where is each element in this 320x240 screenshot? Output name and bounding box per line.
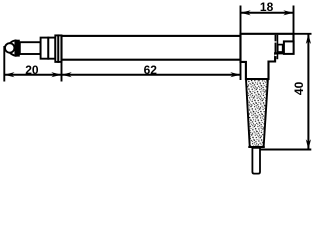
stylus horn (flared tip body) xyxy=(9,40,15,55)
connector square xyxy=(284,41,294,54)
stylus shaft xyxy=(20,42,41,54)
arrow right of dim 62 xyxy=(230,72,240,77)
stippled taper cone xyxy=(246,80,268,146)
flange ring B xyxy=(58,35,61,62)
arrow right of dim 20 xyxy=(51,72,61,77)
extension line left of dim 20 (at stylus tip) xyxy=(3,46,5,82)
extension line right of dim 18 (head right face extended) xyxy=(293,6,295,34)
stylus ball nose xyxy=(5,43,15,53)
cone bottom edge xyxy=(248,146,264,148)
arrow right of dim 18 xyxy=(283,10,293,15)
svg-text:40: 40 xyxy=(292,81,306,95)
cone left side xyxy=(246,80,250,147)
junction line body/head (also extension for 62 and 18) xyxy=(240,6,242,81)
flange ring A xyxy=(55,35,58,62)
dimension line 40 xyxy=(307,34,309,150)
collar ring 1 xyxy=(41,38,49,59)
svg-text:20: 20 xyxy=(25,63,39,77)
collar ring 2 xyxy=(48,38,55,59)
main body cylinder xyxy=(62,36,241,60)
extension line shared by dim 20 / dim 62 (body left face) xyxy=(61,60,63,82)
arrow left of dim 18 xyxy=(241,10,251,15)
dimension line 62 xyxy=(62,74,241,76)
clamp slit lines on head xyxy=(274,35,276,59)
svg-text:18: 18 xyxy=(260,0,274,14)
extension line top of dim 40 (head top extended) xyxy=(294,33,312,35)
arrow left of dim 20 xyxy=(4,72,14,77)
arrow bottom of dim 40 xyxy=(306,139,311,149)
extension line bottom of dim 40 xyxy=(260,149,311,151)
dimension line 20 xyxy=(4,74,61,76)
cone right side xyxy=(264,80,268,147)
dimension line 18 xyxy=(241,12,294,14)
svg-text:62: 62 xyxy=(144,63,158,77)
black band on stylus xyxy=(15,40,20,57)
arrow top of dim 40 xyxy=(306,34,311,44)
arrow left of dim 62 xyxy=(62,72,72,77)
head block outline xyxy=(241,34,294,79)
connector small rect xyxy=(278,45,283,52)
stem below cone xyxy=(252,148,260,174)
